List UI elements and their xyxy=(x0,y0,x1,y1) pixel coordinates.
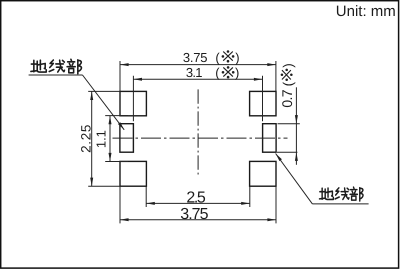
dim 0.7 right: dimension line xyxy=(295,87,297,165)
dim 3.75 bottom: arrowheads xyxy=(120,218,129,221)
svg-text:(: ( xyxy=(215,65,220,80)
label ground-area bottom-right: leader underline xyxy=(312,203,368,205)
svg-text:3.1: 3.1 xyxy=(186,65,203,80)
label ground-area top-left: leader diagonal xyxy=(83,75,125,130)
svg-text:3.75: 3.75 xyxy=(183,50,208,65)
label ground-area bottom-right: text xyxy=(319,188,333,199)
svg-text:): ) xyxy=(235,50,239,65)
dim 3.75 top: dimension line xyxy=(120,64,276,66)
dim 0.7 right: arrowheads (outside) xyxy=(295,115,298,124)
ground pad right xyxy=(263,124,277,153)
label ground-area bottom-right: leader arrowhead xyxy=(276,154,282,162)
svg-text:1.1: 1.1 xyxy=(94,130,109,148)
dim 3.1 top: extension lines (through pad centers) xyxy=(133,76,262,122)
pad bottom-left xyxy=(120,161,146,186)
horizontal centerline xyxy=(113,137,288,139)
pad bottom-right xyxy=(250,161,276,186)
svg-text:3.75: 3.75 xyxy=(180,206,208,223)
dim 3.1 top: dimension line xyxy=(133,78,262,80)
label ground-area top-left: text xyxy=(31,60,46,72)
dim 2.25 left: arrowheads xyxy=(90,91,93,100)
vertical centerline xyxy=(197,89,199,175)
svg-text:2.5: 2.5 xyxy=(186,190,205,207)
pad top-right xyxy=(250,91,276,115)
svg-text:): ) xyxy=(281,63,296,68)
dim 2.25 left: dimension line xyxy=(91,91,93,186)
dim 3.75 top: arrowheads xyxy=(120,63,129,66)
dim 1.1 left: dimension line xyxy=(109,116,111,162)
label ground-area top-left: leader arrowhead xyxy=(118,122,124,130)
ground pad left xyxy=(120,124,133,153)
svg-text:Unit: mm: Unit: mm xyxy=(336,3,396,20)
label ground-area top-left: leader underline xyxy=(29,74,83,76)
svg-text:2.25: 2.25 xyxy=(78,125,93,153)
dim 2.5 bottom: arrowheads xyxy=(146,202,155,205)
dim 1.1 left: extension lines xyxy=(105,116,128,162)
dim 1.1 left: arrowheads xyxy=(109,116,112,125)
svg-text:(: ( xyxy=(215,50,220,65)
dim 2.25 left: extension lines xyxy=(88,91,120,186)
dim 3.75 bottom: extension lines xyxy=(120,186,276,223)
dim 3.1 top: arrowheads xyxy=(133,78,142,81)
dim 0.7 right: extension lines xyxy=(277,124,300,153)
dim 2.5 bottom: extension lines xyxy=(146,186,250,207)
svg-text:): ) xyxy=(235,65,239,80)
dim 2.5 bottom: dimension line xyxy=(146,202,250,204)
svg-text:0.7: 0.7 xyxy=(279,89,295,107)
dim 3.75 top: extension lines xyxy=(120,61,276,91)
pad top-left xyxy=(120,91,146,115)
svg-text:(: ( xyxy=(281,81,296,86)
label ground-area bottom-right: leader diagonal xyxy=(276,154,313,204)
dim 3.75 bottom: dimension line xyxy=(120,219,276,221)
